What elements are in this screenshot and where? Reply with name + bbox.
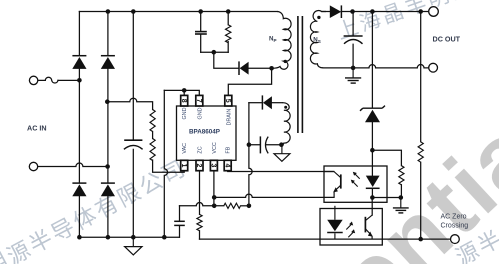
resistor R5 horizontal between VCC and aux bbox=[224, 203, 241, 208]
svg-text:ential: ential bbox=[320, 82, 499, 264]
wire VAC sense from leg2 with hop over cap line bbox=[108, 98, 153, 109]
svg-text:3: 3 bbox=[210, 164, 217, 168]
wire vcc node horizontal with hop over ZC bbox=[180, 203, 224, 206]
wire VCC pin down bbox=[213, 171, 215, 206]
terminal DC OUT plus bbox=[429, 7, 439, 17]
resistor R2 VAC sense lower bbox=[150, 139, 155, 161]
opto2 phototransistor bbox=[365, 215, 372, 239]
wire Ns top to output diode bbox=[322, 11, 330, 13]
resistor R7 AC zero branch bbox=[418, 142, 423, 162]
wire zener to LED1 bbox=[371, 150, 373, 175]
pin 8 box bbox=[181, 95, 188, 106]
wire emitter opto1 to VCC with hop bbox=[214, 194, 334, 197]
svg-text:1: 1 bbox=[180, 164, 187, 168]
diode D6 aux rectifier bbox=[262, 95, 272, 109]
wire output diode cathode to DC+ bbox=[342, 11, 429, 13]
capacitor C2 snubber bbox=[195, 32, 207, 34]
capacitor C3 vcc aux (polarized horizontal) bbox=[260, 136, 268, 153]
wire top rail bbox=[79, 11, 277, 13]
ground secondary earth bbox=[345, 68, 361, 83]
ground aux (open triangle) bbox=[274, 145, 290, 162]
svg-text:FB: FB bbox=[226, 146, 232, 153]
opto2 light arrows bbox=[346, 224, 353, 237]
opto1 phototransistor bbox=[324, 172, 341, 198]
wire filter cap branch vertical bbox=[132, 12, 134, 238]
svg-text:VCC: VCC bbox=[212, 142, 218, 153]
diode D2 bridge top-right bbox=[101, 56, 115, 69]
transformer core bbox=[298, 16, 303, 133]
resistor R1 VAC sense upper bbox=[150, 110, 155, 132]
wire LED node to ground node bbox=[372, 197, 400, 199]
svg-text:VAC: VAC bbox=[182, 143, 188, 154]
wire bridge leg2 vertical bbox=[107, 12, 109, 238]
fuse F1 bbox=[45, 77, 58, 83]
transformer secondary Ns bbox=[310, 11, 326, 68]
pin 3 box bbox=[210, 160, 217, 170]
resistor R4 ZC lower bbox=[197, 214, 202, 230]
terminal AC IN bottom bbox=[29, 162, 37, 170]
chip pin labels bbox=[182, 107, 232, 153]
wire FB pin to opto1 collector with crossing bbox=[228, 170, 334, 173]
svg-text:上海晶丰明源半导体有限公司: 上海晶丰明源半导体有限公司 bbox=[0, 155, 191, 264]
optocoupler U3 box bbox=[320, 209, 382, 246]
svg-text:AC IN: AC IN bbox=[27, 124, 47, 133]
wire DC- rail with hops bbox=[323, 65, 429, 68]
pin 4 box bbox=[224, 160, 231, 170]
resistor R6 opto1 parallel bbox=[399, 166, 404, 185]
resistor R3 snubber bbox=[226, 25, 231, 43]
pin 2 box bbox=[196, 160, 203, 170]
terminal AC zero crossing bbox=[451, 235, 460, 244]
capacitor C1 bulk filter bbox=[124, 140, 143, 149]
wire AC1 fuse to leg1 bbox=[38, 79, 80, 81]
capacitor C4 output bbox=[344, 36, 363, 44]
wire snubber cap leads bbox=[200, 12, 202, 53]
diode D5 clamp bbox=[239, 61, 249, 75]
svg-text:DC OUT: DC OUT bbox=[433, 34, 461, 43]
wire opto2 collector up bbox=[371, 198, 373, 216]
svg-text:ZC: ZC bbox=[198, 146, 204, 153]
svg-text:NS: NS bbox=[313, 37, 321, 45]
wire bridge leg1 vertical bbox=[78, 12, 80, 238]
wire R parallel leads bbox=[372, 150, 401, 197]
pin 7 box bbox=[196, 95, 203, 106]
wire LED1 cathode to node bbox=[371, 189, 373, 198]
wire GND drop to bottom rail with hop bbox=[164, 90, 167, 237]
wire aux vertical drop with hop over FB wire bbox=[249, 103, 252, 206]
svg-text:BPA8604P: BPA8604P bbox=[189, 128, 220, 135]
wire aux diode cathode bbox=[249, 102, 262, 104]
ground main (open triangle) bbox=[125, 237, 142, 255]
diode D1 bridge top-left bbox=[72, 56, 86, 69]
transformer aux winding bbox=[281, 103, 290, 145]
svg-text:2: 2 bbox=[195, 164, 202, 168]
wire AC2 to leg2 with hop over leg1 bbox=[38, 163, 108, 167]
svg-text:4: 4 bbox=[223, 164, 230, 168]
pin 5 box (DRAIN) bbox=[225, 95, 232, 106]
wire vcc node to aux drop bbox=[241, 205, 249, 207]
wire vcc cap leads bbox=[179, 206, 181, 237]
phase dot Ns bbox=[317, 16, 320, 19]
diode D4 bridge bottom-right bbox=[101, 183, 115, 196]
wire snubber bottom bbox=[201, 52, 238, 68]
zener Z1 bbox=[360, 106, 385, 123]
terminal AC IN top bbox=[29, 76, 37, 84]
opto2 LED bbox=[327, 206, 343, 239]
svg-text:NP: NP bbox=[269, 36, 277, 44]
svg-text:5: 5 bbox=[224, 99, 231, 103]
svg-text:GND: GND bbox=[197, 107, 203, 119]
wire output cap leads bbox=[352, 12, 354, 68]
wire zener branch from DC+ bbox=[371, 12, 373, 151]
phase dot aux bbox=[284, 106, 287, 109]
capacitor C5 vcc small bbox=[174, 221, 185, 225]
svg-text:7: 7 bbox=[195, 99, 202, 103]
wire aux cap row bbox=[249, 144, 282, 146]
svg-text:GND: GND bbox=[182, 107, 188, 119]
svg-text:8: 8 bbox=[180, 99, 187, 103]
phase dot Np bbox=[284, 60, 287, 63]
opto1 LED bbox=[366, 176, 380, 189]
pin 1 box bbox=[181, 160, 188, 170]
optocoupler U2 box bbox=[324, 166, 387, 202]
svg-text:AC Zero: AC Zero bbox=[441, 213, 467, 220]
wire GND pins tie bbox=[164, 90, 199, 95]
svg-text:上海晶丰明源半导体有限公司: 上海晶丰明源半导体有限公司 bbox=[334, 0, 499, 44]
transformer primary Np bbox=[272, 12, 291, 70]
wire ZC pin down to resistor bbox=[199, 171, 201, 240]
wire VAC resistor chain links bbox=[153, 132, 185, 173]
diode D3 bridge bottom-left bbox=[72, 183, 86, 196]
wire aux diode anode to winding bbox=[272, 102, 283, 104]
svg-text:Crossing: Crossing bbox=[441, 222, 469, 229]
ground earth right bbox=[393, 198, 409, 213]
wire snubber resistor leads bbox=[227, 12, 229, 53]
pin numbers bbox=[180, 99, 231, 168]
terminal DC OUT minus bbox=[429, 63, 438, 72]
chip U1 BPA8604P body bbox=[177, 106, 237, 160]
wire Np bottom to DRAIN pin bbox=[228, 68, 271, 95]
wire DC+ to AC zero resistor branch bbox=[420, 12, 422, 240]
diode D7 output rectifier bbox=[330, 5, 342, 18]
wire clamp diode anode to Np bbox=[248, 67, 271, 69]
svg-text:DRAIN: DRAIN bbox=[226, 109, 232, 126]
wire AC zero crossing line bbox=[200, 238, 451, 240]
opto1 light arrows bbox=[352, 173, 359, 186]
wire bottom primary rail bbox=[79, 236, 179, 238]
